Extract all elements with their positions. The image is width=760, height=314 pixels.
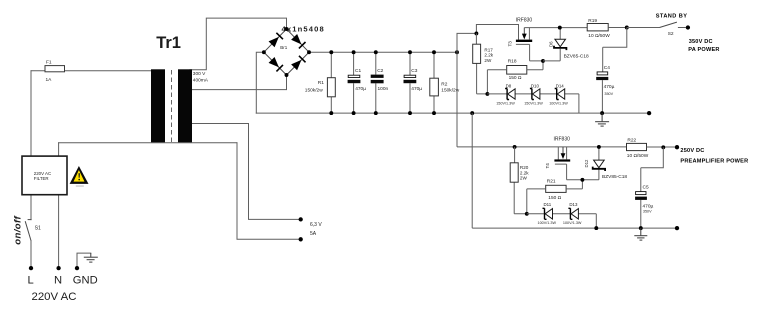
node C2 top — [374, 50, 378, 54]
wire filter box bottom to switch S1 — [30, 195, 32, 220]
wire +300V rail — [309, 51, 457, 53]
svg-text:350V: 350V — [643, 210, 652, 214]
svg-text:R2: R2 — [441, 82, 447, 88]
svg-text:C4: C4 — [604, 65, 610, 71]
wire bridge left corner to 0V rail — [256, 52, 264, 113]
T3 gate plate and lead — [516, 44, 543, 61]
node bridge top — [285, 27, 289, 31]
transistor T4 IRF830 — [545, 136, 599, 179]
svg-text:6,3 V: 6,3 V — [310, 222, 322, 228]
wire lower 0V rail — [472, 113, 677, 228]
svg-text:BZV85-C18: BZV85-C18 — [602, 174, 627, 180]
zener D14 — [555, 89, 565, 100]
node R2 bottom — [432, 111, 436, 115]
T4 drain lead — [557, 147, 559, 160]
resistor R21 — [527, 178, 583, 213]
svg-text:D8: D8 — [506, 83, 512, 88]
wire transformer bottom shared line — [59, 142, 237, 144]
svg-text:R19: R19 — [588, 18, 597, 24]
svg-text:on/off: on/off — [12, 216, 23, 245]
svg-text:2W: 2W — [520, 176, 528, 181]
zener D13 — [568, 208, 578, 219]
node T4 source / D12 top — [597, 145, 601, 149]
T3 arrow — [523, 28, 525, 34]
svg-text:S1: S1 — [35, 225, 41, 231]
wire filter box top right to primary bottom wire — [58, 143, 60, 156]
node T3 source / D6 top — [558, 26, 562, 30]
node R22 / C5 branch — [661, 145, 665, 149]
wire 5A secondary down to terminal — [237, 143, 301, 240]
svg-text:R17: R17 — [484, 47, 493, 52]
node 0V to lower rail — [470, 111, 474, 115]
terminal 0V upper end — [647, 111, 651, 115]
svg-text:IRF830: IRF830 — [554, 136, 571, 142]
svg-text:100V/1.3W: 100V/1.3W — [538, 221, 557, 225]
svg-text:250V DC: 250V DC — [680, 148, 704, 154]
node chain2 to rail — [594, 226, 598, 230]
svg-text:C3: C3 — [411, 68, 417, 74]
svg-text:100V/1.3W: 100V/1.3W — [549, 102, 568, 106]
wire secondary mid tap to bridge bottom — [190, 75, 287, 90]
transformer core dashed line — [171, 70, 173, 142]
wire GND terminal to earth symbol — [77, 253, 91, 268]
svg-text:1A: 1A — [46, 77, 53, 83]
node R20 top — [513, 145, 517, 149]
T4 gate plate and lead — [555, 164, 599, 180]
svg-text:STAND BY: STAND BY — [656, 13, 688, 19]
node R19 / C4 branch — [625, 26, 629, 30]
svg-text:PREAMPLIFIER POWER: PREAMPLIFIER POWER — [680, 159, 748, 165]
node T3 gate / R18 / D6 — [541, 59, 545, 63]
zener D11 — [543, 208, 553, 219]
wire fuse lead to transformer primary top — [31, 70, 151, 72]
bridge rectifier Br1 — [262, 24, 325, 77]
wire 6,3V tap — [190, 124, 301, 220]
capacitor C5 — [635, 147, 663, 228]
node C3 bottom — [408, 111, 412, 115]
T3 source lead — [528, 28, 530, 40]
fuse F1 — [45, 60, 65, 84]
svg-text:10 Ω/50W: 10 Ω/50W — [627, 153, 649, 159]
svg-text:470µ: 470µ — [604, 84, 615, 90]
terminal N — [56, 266, 60, 270]
resistor R18 — [487, 59, 543, 94]
svg-text:F1: F1 — [46, 60, 52, 66]
node rail up-feed — [455, 50, 459, 54]
diamond wires — [264, 29, 309, 75]
svg-text:GND: GND — [73, 275, 98, 287]
svg-text:D13: D13 — [569, 202, 578, 207]
svg-text:C2: C2 — [377, 68, 383, 74]
transistor T3 IRF830 — [507, 18, 587, 61]
svg-text:D10: D10 — [531, 83, 540, 88]
node R17/R18/zener chain — [485, 92, 489, 96]
switch S2 STAND BY — [627, 13, 688, 36]
resistor R19 — [587, 18, 627, 39]
capacitor C1 — [348, 52, 367, 113]
switch S1 — [25, 220, 31, 241]
transformer secondary bar — [178, 69, 192, 142]
wire filter box bottom to N terminal — [58, 195, 60, 268]
node bridge left — [262, 50, 266, 54]
svg-text:R20: R20 — [520, 165, 529, 170]
svg-text:100V/1.3W: 100V/1.3W — [563, 221, 582, 225]
svg-text:150V/1.3W: 150V/1.3W — [524, 102, 543, 106]
node T4 gate / R21 / D12 — [580, 178, 584, 182]
resistor R2 — [430, 52, 460, 113]
svg-text:350V: 350V — [604, 92, 613, 96]
svg-text:R18: R18 — [508, 59, 517, 65]
T3 channel bar — [516, 40, 532, 42]
svg-text:IRF830: IRF830 — [516, 18, 533, 24]
capacitor C3 — [404, 52, 423, 113]
transformer primary bar — [151, 69, 165, 142]
zener D6 BZV85-C18 — [543, 28, 589, 61]
svg-text:470µ: 470µ — [643, 204, 654, 210]
svg-text:D6: D6 — [548, 41, 553, 47]
node R1 top — [329, 50, 333, 54]
T4 channel bar — [554, 159, 570, 161]
node R2 top — [432, 50, 436, 54]
terminal 5A — [299, 237, 303, 241]
wire raw + feed up to T3 drain — [457, 25, 519, 53]
resistor R1 — [305, 52, 336, 113]
transformer Tr1 — [151, 34, 209, 143]
T4 arrow — [562, 147, 564, 154]
wire 0V rail — [256, 112, 649, 114]
svg-text:220V AC: 220V AC — [32, 291, 77, 303]
node C5 / ground — [639, 226, 643, 230]
terminal 250V output — [675, 145, 679, 149]
svg-text:Br1: Br1 — [280, 45, 288, 50]
svg-text:150 Ω: 150 Ω — [509, 75, 522, 81]
resistor R20 — [510, 147, 529, 214]
wire S1 lower contact to L terminal — [30, 241, 32, 269]
svg-text:R21: R21 — [547, 178, 556, 184]
node C1 top — [352, 50, 356, 54]
node bridge right — [307, 50, 311, 54]
svg-text:BZV85-C18: BZV85-C18 — [564, 54, 589, 60]
wire feed down to 250V regulator — [457, 52, 627, 147]
node R20 / R21 / chain — [525, 212, 529, 216]
warning triangle — [70, 166, 89, 187]
terminal 0V lower end — [675, 226, 679, 230]
svg-text:400mA: 400mA — [193, 77, 209, 83]
ground symbol upper — [595, 113, 609, 126]
svg-text:Tr1: Tr1 — [156, 34, 181, 52]
node C2 bottom — [374, 111, 378, 115]
svg-text:100n: 100n — [378, 86, 389, 92]
svg-text:T4: T4 — [545, 163, 550, 169]
svg-text:470µ: 470µ — [411, 86, 422, 92]
svg-text:R22: R22 — [627, 138, 636, 144]
svg-text:R1: R1 — [318, 80, 324, 86]
diode top-right — [291, 34, 306, 49]
resistor R17 — [473, 33, 494, 94]
svg-text:150 Ω: 150 Ω — [548, 195, 561, 201]
terminal 6,3V — [299, 217, 303, 221]
terminal GND — [75, 266, 79, 270]
svg-text:150k/2w: 150k/2w — [305, 87, 323, 93]
svg-text:300 V: 300 V — [193, 71, 206, 77]
svg-text:S2: S2 — [668, 31, 674, 37]
svg-text:N: N — [54, 275, 62, 287]
node C1 bottom — [352, 111, 356, 115]
node C4 / ground — [600, 111, 604, 115]
wire zener chain 2 — [527, 214, 597, 228]
zener D8 — [505, 89, 515, 100]
earth symbol at GND — [84, 253, 98, 262]
svg-text:D12: D12 — [584, 159, 589, 167]
svg-text:350V DC: 350V DC — [689, 39, 713, 45]
svg-text:L: L — [28, 275, 34, 287]
diode bottom-right — [291, 56, 306, 71]
svg-text:5A: 5A — [310, 231, 317, 237]
svg-text:T3: T3 — [507, 41, 512, 47]
node R1 bottom — [329, 111, 333, 115]
node bridge bottom — [285, 73, 289, 77]
wire L line from fuse down to filter box — [30, 71, 32, 156]
zener D12 BZV85-C18 — [584, 147, 627, 180]
capacitor C2 — [371, 52, 389, 113]
resistor R22 — [627, 138, 676, 159]
capacitor C4 — [596, 28, 627, 114]
svg-text:C5: C5 — [643, 185, 649, 191]
terminal 350V output — [686, 25, 690, 29]
svg-text:470µ: 470µ — [355, 86, 366, 92]
svg-text:10 Ω/50W: 10 Ω/50W — [588, 33, 610, 39]
T4 source lead — [566, 147, 568, 160]
svg-text:150V/1.3W: 150V/1.3W — [496, 102, 515, 106]
diode bottom-left — [268, 57, 283, 72]
svg-text:4x1n5408: 4x1n5408 — [282, 24, 325, 33]
svg-text:PA POWER: PA POWER — [688, 47, 719, 53]
node feed/R17 — [474, 31, 478, 35]
wire T3 source to R19 — [524, 27, 587, 29]
svg-text:D14: D14 — [556, 83, 565, 88]
zener D10 — [530, 89, 540, 100]
svg-text:FILTER: FILTER — [34, 176, 49, 181]
wire secondary top tap to bridge top — [190, 18, 287, 70]
filter box 220V AC FILTER — [22, 156, 67, 195]
ground symbol lower — [634, 228, 647, 240]
wire zener chain 1 — [487, 94, 579, 113]
svg-text:C1: C1 — [355, 68, 361, 74]
svg-text:D11: D11 — [544, 202, 552, 207]
svg-text:2W: 2W — [484, 58, 492, 63]
diode top-left — [268, 33, 283, 48]
node C3 top — [408, 50, 412, 54]
terminal L — [29, 266, 33, 270]
